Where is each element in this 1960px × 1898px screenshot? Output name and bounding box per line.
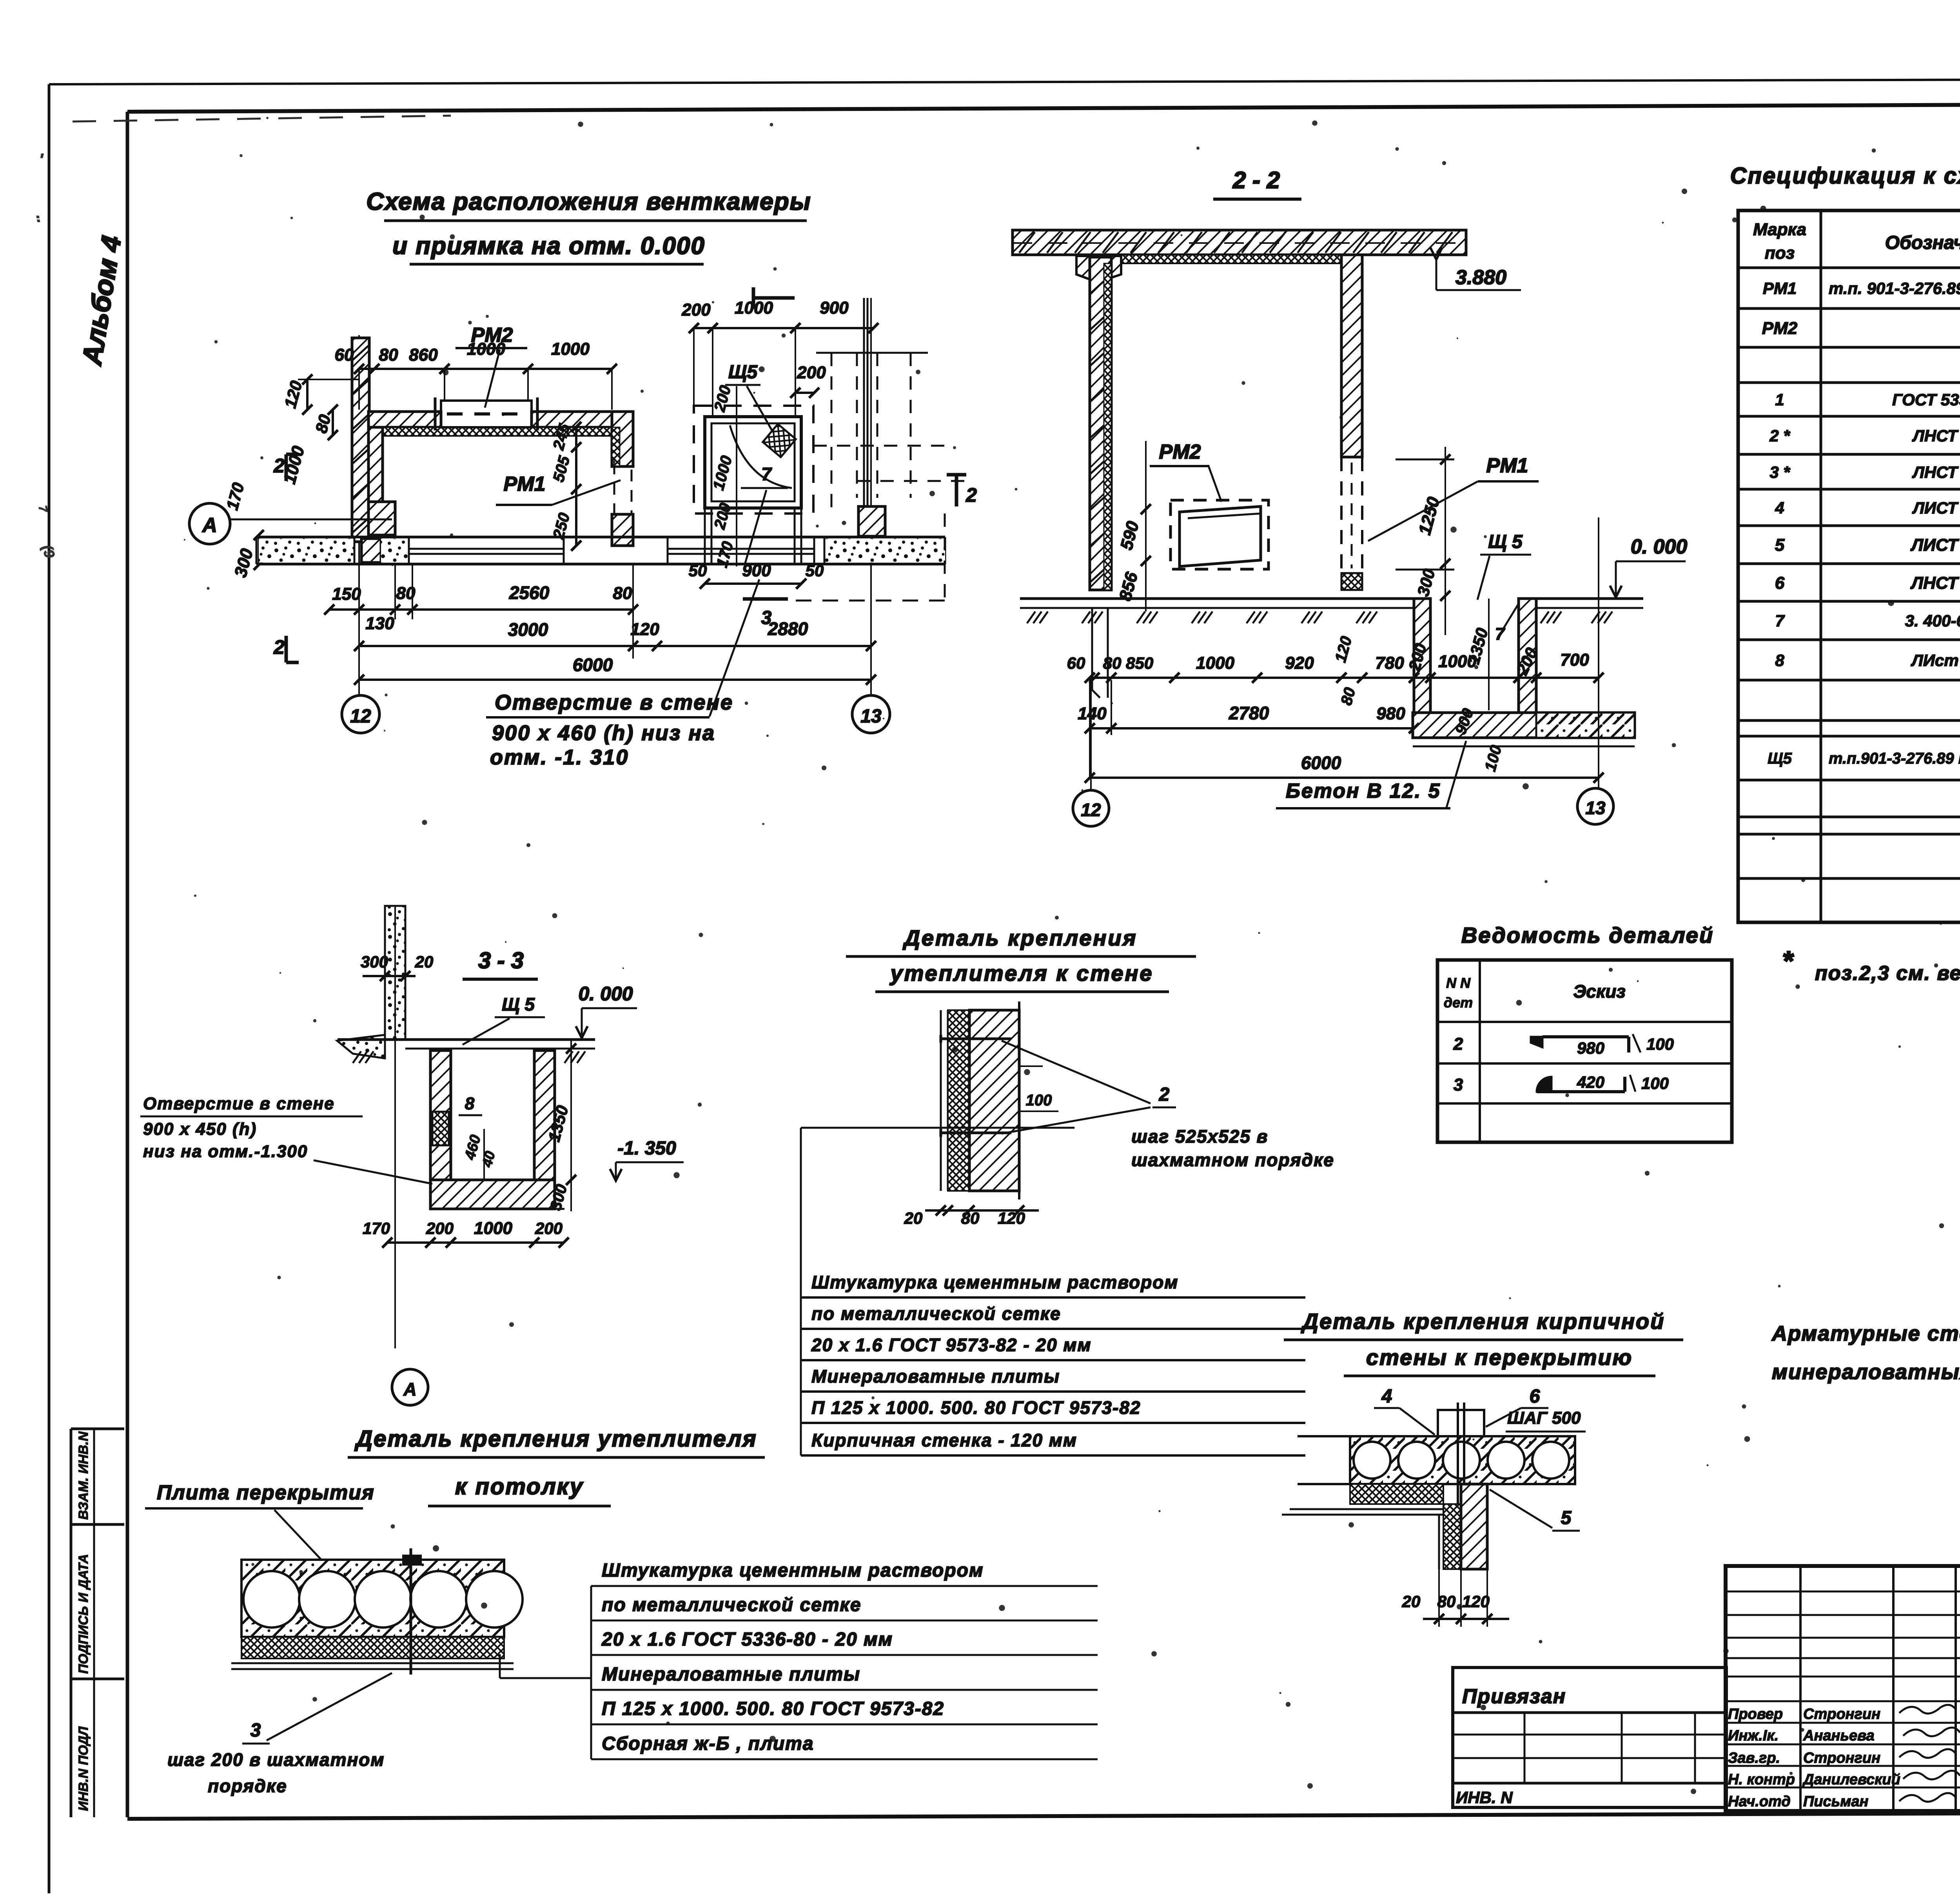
svg-text:N N: N N [1446,975,1471,991]
scan noise specks [916,370,920,374]
svg-text:5: 5 [1561,1508,1572,1528]
plan: section marks 2 (left) [285,454,288,481]
svg-text:РМ1: РМ1 [1486,454,1528,477]
svg-text:ЛИСТ 78: ЛИСТ 78 [1912,499,1960,517]
svg-text:Н. контр: Н. контр [1728,1771,1795,1788]
svg-text:3 *: 3 * [1769,463,1790,481]
s33: floor line [338,1038,595,1041]
svg-text:2: 2 [273,636,285,658]
detail brick: bottom dims 20/80/120 [1423,1618,1509,1620]
svg-text:4: 4 [1381,1386,1392,1407]
svg-text:РМ1: РМ1 [504,473,546,495]
detail brick: vertical insulation strip beside wall [1443,1504,1461,1569]
s22: dim row1 under section [1090,677,1599,679]
svg-text:0. 000: 0. 000 [1631,535,1688,558]
detail ceiling: slab with cores [241,1560,504,1637]
plan: left vertical dims 120/80/1000/170 [306,379,309,410]
svg-text:Стронгин: Стронгин [1803,1706,1880,1722]
s22: floor slab double line [1020,597,1414,600]
plan: pit grate (hatched diamond) [763,424,796,457]
plan: pit area dims 200/1000/900 row [694,327,873,329]
vedomost table [1437,960,1732,1142]
svg-text:80: 80 [961,1209,980,1227]
s22: ceiling slab hatched [1013,230,1466,255]
plan: dim row 3000/120/2880 [359,645,871,647]
svg-text:Минераловатные плиты: Минераловатные плиты [602,1664,860,1685]
svg-text:80 850: 80 850 [1103,654,1153,672]
detail brick: insulation below slab [1350,1484,1443,1504]
s22: level mark 3.880 [1430,248,1442,259]
svg-text:по металлической сетке: по металлической сетке [811,1303,1061,1324]
svg-text:ИНВ.N ПОДЛ: ИНВ.N ПОДЛ [76,1726,91,1811]
plan: PM1 opening in right wall (dashed) [614,466,632,514]
svg-text:минераловатных плит и сетки: минераловатных плит и сетки, отогнуть [1772,1360,1960,1384]
svg-text:13: 13 [860,706,882,727]
svg-text:1: 1 [1775,390,1784,409]
svg-text:РМ1: РМ1 [1763,279,1797,298]
plan: opening strip lines under pit [668,548,814,550]
svg-text:А: А [201,514,217,537]
svg-text:300: 300 [361,953,388,971]
svg-text:Штукатурка цементным раствор: Штукатурка цементным раствором [602,1560,984,1581]
svg-text:Отверстие в стене: Отверстие в стене [495,691,733,714]
svg-text:Сборная ж-Б , плита: Сборная ж-Б , плита [602,1733,814,1754]
svg-text:Схема расположения венткамеры: Схема расположения венткамеры [366,188,811,215]
svg-text:2780: 2780 [1229,703,1269,723]
svg-text:ЛИст 78: ЛИст 78 [1911,651,1960,670]
plan: axis circle 12 [342,695,379,733]
vedomost sketch row2 [1531,1037,1543,1047]
svg-text:Отверстие в стене: Отверстие в стене [143,1094,335,1113]
svg-text:Марка: Марка [1753,220,1806,239]
s22: left wall foundation below floor [1091,608,1093,690]
plan: corner block bottom-left of chamber [368,502,395,535]
svg-text:920: 920 [1285,653,1314,673]
svg-text:60: 60 [335,345,354,365]
svg-text:3. 400-6/76: 3. 400-6/76 [1905,611,1960,630]
s22: right wall dashed PM1 zone [1340,457,1343,573]
pencil scan artifacts top-left [73,116,451,122]
plan: section mark T2 [955,475,958,506]
svg-text:2: 2 [1453,1034,1463,1054]
detail wall: layers [940,1010,942,1191]
plan: column block at axis 13 [858,506,885,536]
svg-text:3: 3 [1454,1075,1463,1094]
svg-text:50: 50 [806,561,824,580]
svg-text:20: 20 [1402,1592,1421,1611]
svg-text:Минераловатные плиты: Минераловатные плиты [811,1366,1060,1386]
s22: corbel at left [1076,256,1121,282]
svg-text:порядке: порядке [208,1776,287,1796]
svg-text:ГОСТ 5336-80: ГОСТ 5336-80 [1892,390,1960,409]
svg-text:Щ5: Щ5 [1768,750,1792,767]
svg-text:140: 140 [1078,704,1107,723]
s22: dim row 6000 [1090,777,1599,779]
svg-text:2: 2 [965,484,977,506]
svg-text:900 х 460 (h) низ на: 900 х 460 (h) низ на [492,721,715,745]
svg-text:780: 780 [1375,653,1404,673]
svg-text:2: 2 [1159,1084,1170,1105]
svg-text:120: 120 [998,1209,1025,1227]
svg-text:900: 900 [742,561,771,580]
s22: left wall [1090,257,1111,590]
svg-text:120: 120 [630,620,659,639]
svg-text:Стронгин: Стронгин [1803,1750,1880,1766]
svg-text:1000: 1000 [1196,653,1234,673]
svg-text:ШАГ 500: ШАГ 500 [1507,1408,1581,1428]
svg-text:3000: 3000 [508,619,548,640]
plan: axis 12 vertical line [358,335,360,696]
svg-text:и приямка на отм. 0.000: и приямка на отм. 0.000 [392,232,705,259]
svg-text:РМ2: РМ2 [1159,441,1201,463]
svg-text:Спецификация к схеме расположе: Спецификация к схеме расположения вентка… [1730,163,1960,189]
svg-text:80: 80 [379,345,398,365]
privyazan strip [1453,1668,1726,1807]
svg-text:Плита перекрытия: Плита перекрытия [157,1481,375,1504]
svg-text:': ' [39,151,44,168]
plan: chamber top wall (hatch + insulation) [368,412,441,427]
s33: ground ticks [353,1051,361,1063]
plan: axis 13 vertical line [870,298,872,696]
svg-text:5: 5 [1775,535,1785,555]
svg-text:Бетон В 12. 5: Бетон В 12. 5 [1286,780,1441,802]
detail wall: bottom dims 20/80/120 [925,1209,1039,1212]
plan: dim 200 (small, right of pit) [795,392,814,394]
svg-text:8: 8 [465,1094,475,1113]
svg-text:8: 8 [1775,651,1784,670]
s22: axis circle 12 [1073,790,1109,826]
s33: pit bottom slab [430,1180,555,1209]
svg-text:3 - 3: 3 - 3 [478,948,524,973]
svg-text:20 х 1.6 ГОСТ 5336-80: 20 х 1.6 ГОСТ 5336-80 - 20 мм [601,1629,893,1650]
svg-text:3.880: 3.880 [1455,266,1506,289]
detail ceiling: insulation [241,1637,504,1658]
svg-text:12: 12 [1081,800,1101,820]
left margin stamp boxes [71,1428,124,1430]
detail ceiling: materials list [590,1586,592,1759]
svg-text:1000: 1000 [551,339,590,359]
svg-text:утеплителя к стене: утеплителя к стене [889,961,1153,985]
svg-text:т.п.901-3-276.89 КЖ.И95.0.0-0У: т.п.901-3-276.89 КЖ.И95.0.0-0У [1829,750,1960,767]
svg-text:20: 20 [415,953,434,971]
svg-text:Эскиз: Эскиз [1573,981,1626,1002]
svg-text:100: 100 [1641,1074,1669,1092]
svg-text:Ананьева: Ананьева [1803,1727,1875,1744]
svg-text:80: 80 [1437,1592,1456,1611]
svg-text:Щ 5: Щ 5 [502,994,535,1014]
svg-text:ЛНСТ 78: ЛНСТ 78 [1910,573,1960,593]
plan: axis A circle and line [189,503,230,544]
svg-text:Зав.гр.: Зав.гр. [1728,1750,1780,1766]
s33: pit right wall [534,1051,555,1182]
s22: dim row2 140/2780/980 [1090,727,1414,729]
svg-text:80: 80 [613,584,632,603]
svg-text:А: А [403,1379,416,1399]
svg-text:20: 20 [904,1209,923,1227]
svg-text:Данилевский: Данилевский [1802,1771,1900,1788]
plan: sub-pit dim 50/900/50 [705,582,801,585]
plan: pit door-swing arc [730,425,792,488]
svg-text:20 х 1.6 ГОСТ 9573-82: 20 х 1.6 ГОСТ 9573-82 - 20 мм [811,1335,1092,1355]
svg-text:отм. -1. 310: отм. -1. 310 [490,746,629,769]
svg-text:100: 100 [1026,1092,1052,1109]
s22: pit right wall [1519,599,1536,713]
svg-text:к потолку: к потолку [455,1474,584,1499]
plan: chamber right wall (hatch+xh) [612,412,633,466]
svg-text:7: 7 [1775,611,1785,630]
s33: axis circle A [392,1369,428,1405]
svg-text:2560: 2560 [509,582,550,603]
svg-text:ЛНСТ 78: ЛНСТ 78 [1912,463,1960,481]
plan: top dimension row 60/80/860/1000/1000 [359,368,612,370]
plan: axis circle 13 [852,695,890,733]
svg-text:4: 4 [1775,499,1784,517]
s22: right wall upper [1341,255,1362,457]
svg-text:*: * [1782,945,1794,976]
s33: dims 300/20 top [363,975,416,977]
svg-text:ЛНСТ 78: ЛНСТ 78 [1912,426,1960,445]
svg-text:Деталь крепления кирпичной: Деталь крепления кирпичной [1301,1309,1665,1334]
s33: item 8 in pit [432,1112,449,1145]
plan: opening strip lines (doorway) [409,548,564,550]
svg-text:т.п. 901-3-276.89 КЖ.И74.0.0: т.п. 901-3-276.89 КЖ.И74.0.0 [1829,279,1960,298]
svg-text:50: 50 [689,561,707,580]
svg-text:170: 170 [363,1219,390,1238]
plan: bottom floor strip with concrete speckle [256,536,945,539]
plan: bottom dim row 150/80/2560/80 [329,608,633,611]
svg-text:Арматурные стержни поз. 2, 3: Арматурные стержни поз. 2, 3 после устан… [1771,1322,1960,1345]
s33: upper wall (speckled) [385,906,405,1039]
svg-text:200: 200 [535,1219,563,1238]
svg-text:Инж.Iк.: Инж.Iк. [1728,1727,1779,1744]
s33: bottom dims 170/200/1000/200 [387,1241,564,1244]
svg-text:Письман: Письман [1803,1793,1868,1810]
svg-text:П 125 х 1000. 500. 80 ГОСТ: П 125 х 1000. 500. 80 ГОСТ 9573-82 [811,1397,1141,1418]
detail brick: brick wall below [1461,1484,1487,1569]
plan: chamber left wall below (hatch) [368,427,383,513]
svg-text:2 *: 2 * [1769,426,1790,445]
svg-text:стены к перекрытию: стены к перекрытию [1366,1345,1633,1370]
detail brick: slab with cores [1350,1436,1575,1484]
svg-text:2: 2 [273,455,285,477]
svg-text:П 125 х 1000. 500. 80 ГОСТ: П 125 х 1000. 500. 80 ГОСТ 9573-82 [602,1698,944,1719]
svg-text:Деталь крепления: Деталь крепления [902,925,1137,950]
svg-text:6: 6 [1530,1386,1540,1407]
svg-text:200: 200 [426,1219,454,1238]
s22: ground hatch ticks [1027,611,1035,623]
svg-text:поз: поз [1765,243,1795,263]
svg-text:Штукатурка цементным раствор: Штукатурка цементным раствором [811,1272,1178,1292]
svg-text:Щ 5: Щ 5 [1488,532,1523,552]
svg-text:дет: дет [1444,994,1473,1011]
svg-text:100: 100 [1646,1035,1674,1053]
plan: pit square (panel Щ5 plan) [705,417,801,508]
svg-text:низ на отм.-1.300: низ на отм.-1.300 [143,1142,308,1161]
svg-text:420: 420 [1577,1073,1604,1091]
s22: dim 590/856 left of PM2 [1145,441,1147,611]
svg-text:поз.2,3 см. ведомость детал: поз.2,3 см. ведомость деталей на данном … [1815,962,1960,985]
title block left signature grid [1726,1591,1960,1593]
svg-text:ИНВ. N: ИНВ. N [1456,1788,1513,1807]
svg-text:1000: 1000 [467,339,505,359]
svg-text:200: 200 [681,300,711,319]
detail wall: anchors [941,1038,1011,1040]
svg-text:3: 3 [250,1720,261,1741]
s33: corbel left [337,1035,385,1058]
svg-text:Ведомость деталей: Ведомость деталей [1461,923,1714,947]
plan: dim row 6000 [359,679,871,681]
s33: pit left wall [430,1051,451,1195]
svg-text:ПОДПИСЬ И ДАТА: ПОДПИСЬ И ДАТА [76,1554,91,1674]
plan: unit PM2 on top wall (dashed) [441,401,532,427]
svg-text:980: 980 [1376,704,1405,723]
svg-text:шаг 200 в шахматном: шаг 200 в шахматном [167,1749,385,1770]
svg-text:7: 7 [761,464,772,484]
svg-text:860: 860 [409,345,438,365]
svg-text:900: 900 [820,298,849,318]
s22: PM2 frame dashed box [1171,500,1269,569]
svg-text:130: 130 [365,614,394,633]
svg-text:120: 120 [1462,1592,1490,1611]
signature scribbles [1899,1705,1956,1713]
vedomost sketch row3 [1537,1077,1552,1092]
svg-text:Кирпичная стенка: Кирпичная стенка - 120 мм [811,1430,1077,1450]
plan: section mark 3 (bottom) [743,597,788,601]
plan: section mark 3 (top) [753,296,795,300]
svg-text:12: 12 [350,706,371,727]
svg-text:Щ5: Щ5 [728,362,758,383]
svg-text:РМ2: РМ2 [1762,319,1798,338]
svg-text:6000: 6000 [1301,753,1341,773]
plan: left exterior wall (hatched) [352,338,369,542]
svg-text:-1. 350: -1. 350 [617,1138,676,1159]
svg-text:ЛИСТ 78: ЛИСТ 78 [1910,535,1960,555]
s22: pit left wall [1414,599,1430,713]
s22: vertical dim 1250/300 [1445,447,1446,635]
svg-text:Привязан: Привязан [1462,1685,1566,1708]
svg-text:Нач.отд: Нач.отд [1728,1793,1791,1810]
svg-text:шаг 525х525 в: шаг 525х525 в [1131,1126,1268,1147]
svg-text:60: 60 [1067,654,1085,672]
svg-text:980: 980 [1577,1039,1604,1057]
svg-text:200: 200 [797,363,826,382]
plan: pit walls crossing floor strip [704,508,706,564]
svg-text:900 х 450 (h): 900 х 450 (h) [143,1120,257,1139]
s22: axis circle 13 [1577,788,1613,824]
svg-text:700: 700 [1560,650,1589,670]
main title block frame [1726,1566,1960,1811]
plan: dashed outline around pit [694,406,813,514]
detail wall: leader to list [801,1127,1074,1129]
plan: right wall pier below opening [612,514,633,546]
svg-text:150: 150 [332,584,361,604]
svg-text:0. 000: 0. 000 [578,983,633,1005]
svg-text:13: 13 [1585,798,1606,818]
svg-text:1000: 1000 [474,1219,512,1238]
sheet outer cut border [48,84,51,1893]
plan: adjacent structure dashed lines right [816,352,928,354]
svg-text:по металлической сетке: по металлической сетке [602,1595,862,1615]
s22: pit bottom slab [1413,713,1635,738]
plan: interior right dims 245/505/250 [575,427,577,546]
s22: right wall sill block [1341,573,1362,590]
svg-text:2880: 2880 [768,619,808,639]
svg-text:6: 6 [1775,573,1785,593]
s33: dims right 1350/300 [570,1040,572,1211]
spec table grid [1738,210,1960,922]
s22: insulation under slab [1119,255,1345,263]
svg-text:2 - 2: 2 - 2 [1232,167,1280,193]
detail wall: materials list [800,1279,802,1455]
detail ceiling: anchor [402,1555,422,1566]
detail brick: bolt on top [1438,1410,1484,1436]
svg-text:шахматном порядке: шахматном порядке [1131,1150,1334,1170]
svg-text:Обозначение: Обозначение [1885,232,1960,253]
svg-text:ВЗАМ. ИНВ.N: ВЗАМ. ИНВ.N [76,1431,91,1520]
inner drawing frame [127,103,1960,112]
svg-text:Деталь крепления утеплителя: Деталь крепления утеплителя [354,1426,757,1452]
plan: pit left rotated dims 200/1000/200/170 [736,386,737,566]
svg-text:6000: 6000 [573,655,613,675]
svg-text:Провер: Провер [1728,1706,1783,1722]
plan: leader from note to pit [710,579,759,717]
